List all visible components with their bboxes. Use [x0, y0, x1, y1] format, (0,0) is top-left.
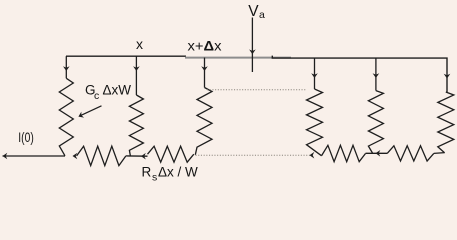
svg-text:I(0): I(0): [18, 130, 34, 145]
svg-text:x+Δx: x+Δx: [188, 38, 222, 54]
svg-text:R: R: [142, 165, 152, 180]
svg-text:c: c: [94, 90, 99, 102]
svg-text:a: a: [259, 9, 265, 21]
svg-text:ΔxW: ΔxW: [103, 83, 132, 98]
svg-text:V: V: [248, 3, 259, 20]
svg-text:Δx / W: Δx / W: [158, 165, 198, 180]
svg-text:x: x: [136, 36, 143, 52]
svg-text:s: s: [152, 172, 157, 184]
